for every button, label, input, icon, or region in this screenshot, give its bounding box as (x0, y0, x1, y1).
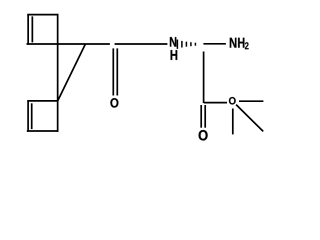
amine NH2 label: N (230, 38, 237, 48)
lower cyclobutene ring: left edge (27, 100, 29, 132)
ester O label (small) (229, 97, 236, 104)
amide carbonyl O label (110, 98, 118, 108)
bond: carbonyl carbon to amide N (115, 43, 168, 45)
shared right vertical edge (upper ring right edge + connector + lower ring right edge) (57, 14, 59, 132)
ester C=O double bond line 1 (200, 105, 202, 128)
upper cyclobutene ring: left edge (27, 14, 29, 45)
bond: ester carbonyl carbon to ester oxygen (204, 102, 227, 104)
cyclopropane diagonal bond (58, 44, 86, 101)
ester carbonyl O label (199, 130, 208, 140)
bond: tert-butyl methyl (down-right diagonal) (236, 105, 263, 132)
amide N label (170, 37, 176, 46)
amine NH2 label: H (238, 38, 244, 48)
amide C=O double bond line 1 (112, 48, 114, 95)
lower cyclobutene ring: top edge (27, 100, 57, 102)
bond: ester oxygen to methyl (right) (239, 100, 263, 102)
backbone bond: ring bottom edge extending to amide carbonyl carbon (27, 43, 110, 45)
bond: tert-butyl methyl (straight down) (232, 109, 234, 135)
amide C=O double bond line 2 (116, 48, 118, 95)
upper cyclobutene ring: top edge (27, 14, 58, 16)
bond: alpha carbon down to ester carbonyl carbon (203, 52, 205, 104)
lower cyclobutene ring: bottom edge (27, 130, 59, 132)
amine NH2 label: subscript 2 (245, 42, 249, 49)
bond: alpha carbon to NH2 (203, 43, 226, 45)
ester C=O double bond line 2 (204, 105, 206, 128)
upper cyclobutene ring: double bond inner line (31, 16, 33, 42)
lower cyclobutene ring: double bond inner line (31, 103, 33, 129)
hashed stereo bond from alpha carbon to amide N (5 dashes) (177, 40, 195, 49)
amide H label (171, 50, 178, 60)
